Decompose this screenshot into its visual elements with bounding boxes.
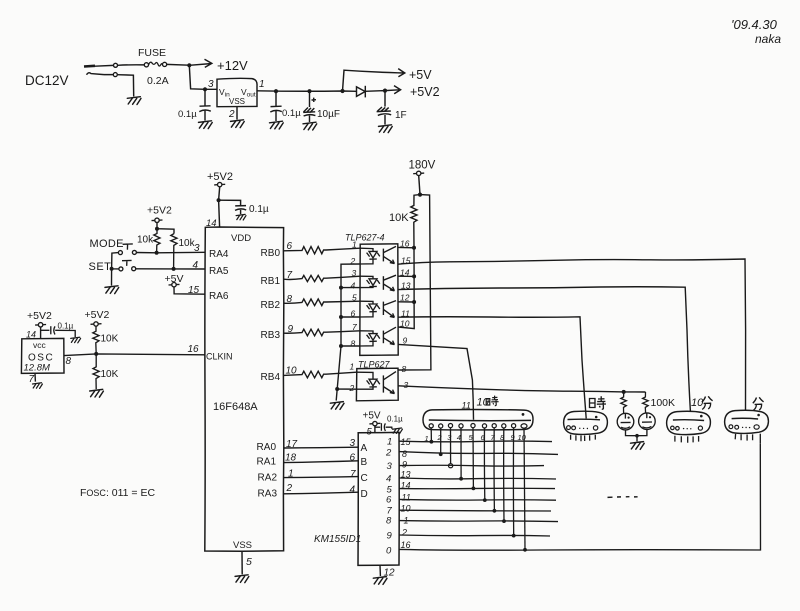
node +5V2 terminal OSC: [27, 310, 52, 322]
wire RA2 to driver C: [284, 477, 358, 478]
svg-text:7: 7: [350, 469, 356, 480]
pin 2 label RA3: [286, 483, 293, 494]
pin 2 regulator ground: [236, 107, 238, 120]
node junction neon feed: [622, 390, 626, 394]
node +5V terminal RA6: [165, 273, 184, 285]
wire cathode bus line 1: [399, 440, 552, 443]
svg-text:RA1: RA1: [257, 457, 277, 468]
svg-text:KM155ID1: KM155ID1: [314, 534, 361, 545]
opto channel 2 transistor: [383, 275, 396, 291]
opto channel 4 transistor: [383, 327, 396, 344]
svg-text:100K: 100K: [651, 397, 676, 409]
svg-text:5: 5: [352, 293, 357, 303]
node junction pullups: [155, 227, 159, 231]
tube cathode circles MIN: [729, 425, 759, 429]
svg-text:1: 1: [259, 79, 265, 90]
wire dashed bus continuation: [608, 496, 638, 499]
wire cathode bus line 2: [399, 452, 558, 455]
wire SET to RA5: [136, 268, 206, 270]
svg-text:10µF: 10µF: [317, 109, 340, 120]
svg-text:2: 2: [228, 109, 235, 120]
text kanji MIN (10MIN): [702, 396, 713, 409]
node anode dot 10HOUR: [522, 413, 525, 416]
driver input labels: [361, 443, 368, 500]
node junction rail pin12: [412, 300, 416, 304]
node junction MODE pullup: [155, 251, 159, 255]
wire +5V2 to pullups: [157, 223, 174, 234]
svg-text:+12V: +12V: [217, 58, 248, 73]
node +12V arrow: [189, 59, 212, 67]
resistor 100K neon 1: [621, 392, 627, 413]
wire +5V to driver pin 5: [374, 426, 376, 433]
svg-text:3: 3: [350, 438, 356, 449]
pin 7 OSC ground: [34, 373, 36, 381]
ground 10uF cap: [303, 122, 317, 130]
wire RA0 to driver A: [284, 446, 358, 449]
svg-text:12: 12: [400, 293, 410, 303]
lamp NE2 neon colon: [639, 413, 656, 430]
svg-text:18: 18: [285, 453, 297, 464]
wire opto out 11 to HOUR tube anode: [398, 317, 586, 419]
node +5V2 terminal at VDD: [207, 171, 233, 183]
svg-text:15: 15: [188, 285, 200, 296]
optocoupler U4 TLP627 body: [358, 360, 391, 370]
wire +5V branch up and right: [343, 70, 398, 91]
svg-text:10k: 10k: [137, 235, 154, 246]
wire 5V rail after regulator: [257, 90, 356, 93]
node junction at Vin: [203, 87, 207, 91]
resistor 10k MODE pull-up: [154, 229, 160, 253]
pin 4 label RA5: [193, 260, 199, 271]
wire +5V2 to OSC vcc: [40, 327, 42, 339]
tube V4 MIN nixie body: [725, 410, 769, 433]
svg-text:C: C: [361, 473, 368, 484]
svg-text:10: 10: [401, 504, 411, 514]
text kanji HOUR: [486, 396, 498, 406]
opto channel 3 LED: [360, 301, 380, 317]
svg-text:9: 9: [403, 336, 408, 346]
node anode dot MIN: [757, 414, 760, 417]
svg-text:VDD: VDD: [231, 233, 251, 244]
switch SET pushbutton: [119, 260, 136, 271]
pin 10 label RB4: [286, 366, 298, 377]
pin 3 label driver A: [350, 438, 356, 449]
ground VSS: [235, 575, 249, 583]
wire LED cathode ground rail: [336, 264, 360, 401]
pin 18 label RA1: [285, 453, 297, 464]
opto channel 5 LED: [357, 372, 380, 389]
node +5V arrow: [398, 69, 405, 77]
svg-text:16F648A: 16F648A: [213, 401, 258, 413]
svg-text:RA3: RA3: [258, 489, 278, 500]
wire opto out 13 to 10MIN tube anode: [398, 287, 690, 412]
pin 9 label RB3: [288, 324, 294, 335]
text MODE: [90, 238, 124, 250]
ground neon lamps: [631, 442, 645, 450]
svg-text:RB3: RB3: [261, 330, 281, 341]
wire 10HOUR pin3 to bus 3: [450, 428, 452, 464]
resistor 10k SET pull-up: [171, 234, 177, 269]
node 180V terminal: [409, 160, 436, 172]
text title 10HOUR: [477, 397, 490, 409]
wire +5V2 to VDD: [219, 187, 220, 227]
node junction divider CLKIN: [94, 352, 98, 356]
wire opto out 9 to 10HOUR tube anode: [398, 344, 473, 419]
svg-text:A: A: [361, 443, 368, 454]
text SET: [89, 261, 112, 273]
svg-text:RB4: RB4: [261, 372, 281, 383]
ground OSC cap: [71, 337, 81, 343]
svg-text:+5V2: +5V2: [27, 310, 52, 322]
wire cathode bus line 4: [399, 478, 556, 479]
svg-text:RA5: RA5: [209, 266, 229, 277]
node junction +5V2: [383, 89, 387, 93]
wire OSC out to CLKIN: [64, 354, 205, 356]
wire 180V rail to single opto collector: [398, 195, 431, 370]
text kanji title HOUR: [590, 396, 607, 409]
svg-text:3: 3: [208, 79, 214, 90]
tube V3 10MIN nixie body: [667, 411, 711, 434]
pin 7 label RB1: [287, 270, 293, 281]
node junction cathode rail pin4: [339, 286, 343, 290]
wire cathode bus line 7: [399, 509, 551, 512]
text kanji MIN: [753, 397, 764, 410]
node +5V2 arrow: [385, 86, 401, 94]
opto channel 1 LED: [360, 248, 380, 264]
svg-text:10K: 10K: [101, 334, 119, 345]
svg-text:vcc: vcc: [33, 340, 47, 350]
svg-text:+5V: +5V: [165, 273, 184, 285]
svg-text:5: 5: [246, 556, 252, 568]
wire RA3 to driver D: [284, 492, 358, 494]
wire 10HOUR pin5 to bus 5: [472, 428, 474, 489]
wire 180V down: [419, 176, 420, 195]
svg-text:+5V: +5V: [363, 411, 381, 422]
tube legs MIN: [735, 434, 752, 441]
ground regulator: [231, 120, 245, 128]
svg-text:6: 6: [386, 495, 392, 506]
tube legs 10MIN: [675, 436, 699, 443]
svg-text:+5V2: +5V2: [410, 85, 440, 99]
svg-text:0: 0: [386, 546, 392, 557]
pin labels quad opto right: [400, 239, 411, 346]
tube legs HOUR: [571, 435, 596, 442]
IC U2 PIC 16F648A body: [205, 227, 284, 551]
svg-text:naka: naka: [755, 32, 781, 46]
tube pins 10HOUR (circles): [429, 424, 527, 429]
wire 10HOUR pin8 to bus 8: [503, 428, 505, 521]
resistor RB2 series: [284, 299, 360, 306]
regulator U1 5V regulator body: [217, 78, 257, 106]
svg-text:16: 16: [188, 344, 200, 355]
switch MODE pushbutton: [118, 244, 136, 255]
svg-text:0.1µ: 0.1µ: [282, 108, 301, 119]
pin 11 label 10HOUR anode: [462, 401, 471, 411]
wire 10HOUR pin9 to bus 9: [512, 428, 514, 536]
svg-text:11: 11: [402, 493, 411, 503]
svg-text:+5V2: +5V2: [147, 205, 172, 217]
svg-text:'09.4.30: '09.4.30: [731, 17, 778, 32]
svg-text:+5V2: +5V2: [85, 309, 110, 321]
svg-text:8: 8: [402, 364, 407, 374]
node junction SET pullup: [172, 267, 176, 271]
svg-text:16: 16: [401, 540, 411, 550]
wire +12V junction down to Vin: [189, 65, 217, 89]
resistor 100K neon 2: [643, 392, 649, 413]
svg-text:+5V: +5V: [409, 68, 432, 82]
wire cathode bus line 3: [399, 464, 544, 467]
svg-text:RB0: RB0: [261, 248, 281, 259]
pin 16 label CLKIN: [188, 344, 200, 355]
ground driver: [373, 577, 387, 585]
tube cathode circles 10MIN: [671, 426, 703, 430]
pin 15 label RA6: [188, 285, 200, 296]
pin 3 label regulator Vin: [208, 79, 214, 90]
pin 6 label RB0: [287, 241, 293, 252]
svg-text:11: 11: [462, 401, 471, 411]
svg-text:3: 3: [387, 461, 393, 472]
text title 10MIN: [691, 397, 704, 409]
svg-text:1: 1: [288, 469, 294, 480]
capacitor 0.1u at regulator input: [199, 89, 211, 120]
svg-text:0.2A: 0.2A: [147, 75, 169, 87]
svg-text:180V: 180V: [409, 160, 436, 172]
node anode dot HOUR: [595, 416, 598, 419]
wire DC12V positive lead: [84, 63, 144, 67]
capacitor 0.1u after regulator: [270, 91, 282, 121]
optocoupler U3 TLP627-4 quad body: [345, 233, 385, 243]
wire fuse to +12V junction: [167, 63, 189, 66]
node DC12V input label: [25, 73, 69, 88]
svg-text:1F: 1F: [395, 110, 407, 121]
pin number labels 10HOUR: [425, 433, 527, 443]
wire collector rail quad: [398, 247, 414, 328]
svg-text:1: 1: [387, 437, 392, 448]
pin 14 label OSC vcc: [26, 330, 36, 340]
ground VDD cap: [236, 214, 246, 220]
opto channel 3 transistor: [383, 301, 396, 318]
svg-text:10K: 10K: [101, 369, 119, 380]
node junction switch common: [110, 267, 114, 271]
pin labels quad opto left: [350, 240, 358, 349]
pin 8 label RB2: [287, 294, 293, 305]
ground input cap: [199, 121, 213, 129]
wire RA1 to driver B: [284, 461, 358, 463]
wire cathode bus line 6: [399, 498, 556, 501]
svg-text:10: 10: [691, 397, 704, 409]
wire 10HOUR pin2 to bus 2: [440, 428, 442, 454]
node +5V2 terminal MODE/SET pullups: [147, 205, 172, 217]
svg-text:6: 6: [350, 453, 356, 464]
resistor 10K divider lower: [93, 354, 99, 389]
svg-text:0.1µ: 0.1µ: [58, 322, 74, 331]
wire DC12V negative lead: [87, 73, 134, 97]
node junction cap 0.1u: [274, 89, 278, 93]
IC U5 KM155ID1 driver body: [358, 432, 399, 565]
pin 5 VSS ground wire: [241, 551, 243, 574]
svg-text:RA0: RA0: [257, 442, 277, 453]
wire cathode bus line 0 to MIN tube: [399, 443, 761, 550]
svg-text:17: 17: [286, 439, 298, 450]
svg-text:0.1µ: 0.1µ: [249, 204, 269, 215]
node junction 180V: [418, 193, 422, 197]
node junction rail pin14: [412, 274, 416, 278]
pin 1 label regulator Vout: [259, 79, 265, 90]
text KM155ID1: [314, 534, 361, 545]
opto channel 5 transistor: [383, 372, 396, 394]
svg-text:1: 1: [350, 362, 355, 372]
capacitor 10uF electrolytic: [303, 91, 316, 122]
svg-text:RB2: RB2: [261, 300, 281, 311]
ground LED cathodes: [330, 402, 344, 410]
svg-text:VSS: VSS: [229, 97, 245, 106]
pin 7 label driver C: [350, 469, 356, 480]
tube cathode circles HOUR: [567, 426, 598, 430]
svg-text:8: 8: [402, 449, 407, 459]
capacitor 0.1u OSC decoupling: [41, 326, 76, 337]
wire cathode bus line 8: [399, 521, 558, 522]
capacitor 0.1u VDD decoupling: [219, 200, 247, 214]
svg-text:2: 2: [385, 448, 392, 459]
svg-text:RA6: RA6: [209, 291, 229, 302]
svg-text:FUSE: FUSE: [138, 47, 166, 59]
ground OSC: [33, 383, 43, 389]
ground 0.1u cap: [270, 121, 284, 129]
ground 1F cap: [379, 125, 393, 133]
svg-text:2: 2: [437, 433, 443, 442]
node junction at +12V: [187, 63, 191, 67]
wire 10HOUR pin4 to bus 4: [460, 428, 462, 479]
pin 1 label RA2: [288, 469, 294, 480]
svg-text:FOSC: 011 = EC: FOSC: 011 = EC: [80, 487, 155, 499]
node +5V2 terminal divider: [85, 309, 110, 321]
svg-text:10K: 10K: [389, 212, 409, 224]
node junction cathode rail pin6: [339, 315, 343, 319]
lamp NE1 neon colon: [617, 413, 634, 430]
wire 10HOUR pin7 to bus 7: [493, 428, 495, 511]
node junction +5V branch: [340, 89, 344, 93]
tube V1 10HOUR nixie body: [423, 409, 533, 429]
svg-text:0.1µ: 0.1µ: [178, 109, 197, 120]
ground switches: [105, 286, 119, 294]
capacitor 1F supercap: [377, 91, 392, 125]
svg-text:1: 1: [425, 434, 429, 443]
wire cathode bus line 5: [399, 487, 555, 490]
text FOSC setting: [80, 487, 155, 499]
text 100K: [651, 397, 676, 409]
opto channel 1 transistor: [383, 246, 396, 263]
opto channel 4 LED: [360, 331, 380, 346]
svg-text:4: 4: [351, 281, 356, 291]
svg-text:4: 4: [350, 485, 356, 496]
svg-text:9: 9: [402, 460, 407, 470]
resistor 10K divider upper: [93, 326, 99, 354]
svg-text:D: D: [361, 489, 368, 500]
svg-text:0.1µ: 0.1µ: [387, 415, 403, 424]
wire MIN tube cathode leg to bus 0: [759, 434, 761, 444]
pin 12 driver ground: [379, 565, 381, 576]
svg-text:10: 10: [518, 433, 527, 442]
svg-text:VSS: VSS: [233, 540, 252, 551]
svg-text:2: 2: [286, 483, 293, 494]
node junction cathode rail pin8: [339, 344, 343, 348]
node junction 10uF: [307, 89, 311, 93]
svg-text:CLKIN: CLKIN: [206, 352, 233, 362]
svg-text:3: 3: [404, 380, 409, 390]
svg-text:RA2: RA2: [258, 473, 278, 484]
ground DC12V return: [127, 97, 141, 105]
node junction cathode rail single opto: [335, 387, 339, 391]
wire opto out 3 to neon lamps: [398, 386, 645, 392]
svg-text:12.8M: 12.8M: [24, 363, 50, 374]
pin 3 label RA4: [194, 243, 200, 254]
driver output pin numbers: [401, 437, 412, 550]
wire 10HOUR pin6 to bus 6: [483, 428, 485, 500]
svg-text:3: 3: [194, 243, 200, 254]
driver output digit labels: [385, 437, 393, 557]
wire MODE to RA4: [136, 251, 205, 254]
tube V2 HOUR nixie body: [564, 411, 608, 434]
svg-text:RB1: RB1: [261, 276, 281, 287]
text date '09.4.30 naka: [731, 17, 781, 46]
pin labels single opto: [349, 362, 409, 394]
ground driver cap: [393, 428, 403, 434]
svg-text:TLP627-4: TLP627-4: [345, 233, 385, 243]
wire 10HOUR pin1 to bus 1: [430, 428, 432, 442]
node anode dot 10MIN: [700, 415, 703, 418]
svg-text:4: 4: [457, 433, 461, 442]
svg-text:DC12V: DC12V: [25, 73, 69, 88]
svg-text:2: 2: [401, 528, 407, 538]
svg-text:4: 4: [386, 474, 391, 485]
svg-text:1: 1: [352, 240, 357, 250]
svg-text:3: 3: [352, 268, 357, 278]
svg-text:4: 4: [193, 260, 199, 271]
svg-text:RA4: RA4: [209, 249, 229, 260]
resistor 10K anode supply: [411, 195, 420, 248]
wire neon cathodes to ground: [626, 430, 647, 442]
wire +5V to RA6: [174, 287, 205, 294]
svg-text:7: 7: [352, 322, 357, 332]
svg-text:SET: SET: [89, 261, 112, 273]
pin 8 label OSC out: [66, 356, 72, 367]
resistor RB4 series: [284, 371, 357, 378]
svg-text:2: 2: [349, 383, 355, 393]
fuse FUSE 0.2A: [144, 62, 166, 67]
oscillator X1 OSC 12.8M: [21, 338, 64, 373]
ground divider: [90, 389, 104, 397]
wire switch commons to ground: [112, 253, 119, 286]
svg-text:+5V2: +5V2: [207, 171, 233, 183]
svg-text:B: B: [361, 457, 368, 468]
capacitor 0.1u driver decoupling: [375, 423, 392, 431]
svg-text:9: 9: [387, 531, 393, 542]
pin 17 label RA0: [286, 439, 298, 450]
pin 4 label driver D: [350, 485, 356, 496]
pin 5 label driver VCC: [367, 427, 373, 438]
svg-text:8: 8: [66, 356, 72, 367]
opto channel 2 LED: [360, 276, 380, 287]
resistor RB1 series: [284, 275, 360, 281]
wire 10HOUR pin10 to bus 0: [524, 428, 525, 550]
pin 14 label VDD: [206, 218, 217, 229]
node junction rail pin16: [412, 246, 416, 250]
pin 6 label driver B: [350, 453, 356, 464]
node junction VDD decoupling: [217, 198, 221, 202]
node +5V terminal driver: [363, 411, 381, 422]
diode D1 (backup supply): [357, 86, 386, 98]
svg-text:8: 8: [351, 339, 356, 349]
